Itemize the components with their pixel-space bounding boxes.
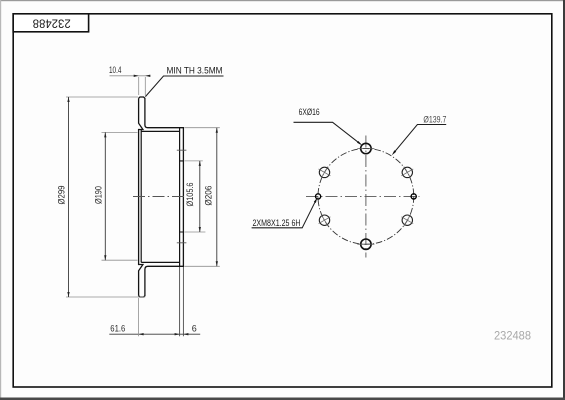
bolt circle ticks on flange <box>177 150 187 243</box>
bolt hole bottom <box>357 239 374 249</box>
svg-text:10.4: 10.4 <box>109 65 122 75</box>
min thickness leader <box>145 76 223 97</box>
dimension 10.4 line and arrows <box>110 75 151 77</box>
dimension 61.6 extension line <box>138 298 140 336</box>
svg-text:Ø190: Ø190 <box>93 186 103 204</box>
dimension 6 extension lines <box>180 267 184 336</box>
page edge left <box>0 0 1 400</box>
dimension Ø299 extension lines <box>66 97 145 297</box>
dimension Ø190 text <box>93 186 103 204</box>
vertical centerline <box>365 136 367 258</box>
svg-text:6XØ16: 6XØ16 <box>299 107 320 117</box>
pilot hole edge ticks (Ø105.6) <box>180 161 184 232</box>
horizontal centerline <box>306 195 420 197</box>
hat inner bore outline <box>141 130 179 263</box>
page edge right <box>563 0 565 400</box>
dimension 10.4 text <box>109 65 122 75</box>
dimension Ø190 line <box>104 132 106 260</box>
dimension Ø105.6 line <box>199 161 201 232</box>
disc friction face with undercut darts <box>139 98 143 295</box>
dimension Ø206 extension lines <box>184 128 219 267</box>
svg-text:61.6: 61.6 <box>110 324 125 334</box>
svg-text:6: 6 <box>192 324 197 334</box>
title text 232488 (rotated 180) <box>33 17 71 29</box>
svg-text:232488: 232488 <box>494 329 531 343</box>
bolt hole lower-right <box>401 214 413 226</box>
label 2XM8X1.25 6H text <box>253 218 301 228</box>
label 6XØ16 text <box>299 107 320 117</box>
dimension Ø190 extension lines <box>102 132 138 260</box>
label 6XØ16 leader <box>294 122 363 145</box>
dimension 61.6 text <box>110 324 125 334</box>
svg-text:MIN TH 3.5MM: MIN TH 3.5MM <box>167 65 223 75</box>
dimension 10.4 extension lines <box>139 77 146 96</box>
bolt circle Ø139.7 (dashed) <box>318 149 414 245</box>
label Ø139.7 leader <box>392 125 446 156</box>
bolt hole lower-left <box>319 214 331 226</box>
threaded hole M8 left <box>316 194 321 199</box>
svg-text:232488: 232488 <box>33 17 71 29</box>
dimension Ø206 line <box>216 128 218 267</box>
dimension Ø206 text <box>204 186 214 206</box>
dimension Ø105.6 text <box>185 183 195 207</box>
dimension 6 text <box>192 324 197 334</box>
dimension Ø105.6 extension lines <box>184 161 205 232</box>
bolt hole upper-right <box>401 167 413 179</box>
page edge top <box>0 0 565 1</box>
bolt hole upper-left <box>319 167 331 179</box>
left view centerline <box>133 196 187 198</box>
svg-text:Ø206: Ø206 <box>204 186 214 206</box>
svg-text:Ø299: Ø299 <box>57 186 67 205</box>
label 2XM8X1.25 6H leader <box>252 198 318 228</box>
label Ø139.7 text <box>423 114 446 124</box>
svg-text:2XM8X1.25 6H: 2XM8X1.25 6H <box>253 218 301 228</box>
dimension Ø299 text <box>57 186 67 205</box>
svg-text:Ø139.7: Ø139.7 <box>423 114 446 124</box>
min thickness note text <box>167 65 223 75</box>
dimension 61.6 / 6 shared line <box>109 333 200 335</box>
svg-text:Ø105.6: Ø105.6 <box>185 183 195 207</box>
bolt hole top <box>357 143 374 153</box>
dimension 6 arrow <box>183 333 188 335</box>
disc outer outline (top face, hat outer, flange right, bottom mirror) <box>139 97 184 297</box>
dimension 61.6 arrows <box>139 333 180 335</box>
dimension Ø299 line <box>67 97 69 297</box>
page edge bottom <box>0 398 565 400</box>
part number bottom right <box>494 329 531 343</box>
flange left face <box>179 128 181 267</box>
threaded hole M8 right <box>411 194 416 199</box>
title box <box>13 14 88 32</box>
